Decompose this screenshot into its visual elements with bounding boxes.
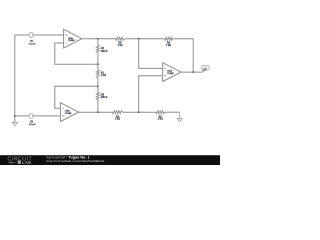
svg-text:1 kΩ: 1 kΩ <box>166 45 171 47</box>
svg-text:1.6 mV: 1.6 mV <box>29 124 36 126</box>
label R7 <box>158 116 163 120</box>
wire V2 right to op-amp OA2 + <box>34 115 61 117</box>
voltage source V2 <box>29 113 34 118</box>
svg-text:http://circuitlab.com/c/ba7hw2: http://circuitlab.com/c/ba7hw2Mbn9 <box>47 159 105 163</box>
wire R7 to right ground <box>165 111 180 113</box>
resistor R3 (vertical, mid column bottom) <box>96 92 99 100</box>
node V2 branch on left rail <box>14 115 16 117</box>
label R5 <box>118 43 123 47</box>
svg-text:1.4 mV: 1.4 mV <box>29 42 36 45</box>
resistor R7 (horizontal, bottom right) <box>156 111 165 114</box>
node tap2 (R1/R3 feedback OA2) <box>97 86 99 88</box>
label OA2 <box>65 110 72 115</box>
wire left rail <box>14 35 16 122</box>
label OA3 <box>167 70 174 75</box>
svg-text:1 kΩ: 1 kΩ <box>115 119 120 121</box>
node R4/R7 junction <box>138 111 140 113</box>
wire op-amp OA2 output <box>79 111 113 113</box>
wire mid column top <box>97 39 99 46</box>
footer logo LAB icon <box>18 161 21 164</box>
footer logo waveform <box>8 161 16 163</box>
resistor R6 (horizontal, top right) <box>165 37 173 40</box>
resistor R2 (vertical, mid column top) <box>96 45 99 53</box>
ground (bottom right) <box>177 112 182 122</box>
resistor R5 (horizontal, top) <box>116 37 125 40</box>
label R2 <box>101 48 107 53</box>
op-amp OA2 <box>60 103 78 122</box>
wire op-amp OA1 output <box>82 38 116 40</box>
node A (OA1 output / R2 top) <box>97 38 99 40</box>
voltage source V1 <box>29 33 34 38</box>
node OA3 output / feedback junction <box>192 71 194 73</box>
wire op-amp OA1 feedback <box>55 43 98 64</box>
wire op-amp OA3 output <box>181 71 203 73</box>
svg-text:TL082: TL082 <box>65 113 72 115</box>
label R4 <box>115 115 120 120</box>
resistor R1 (vertical, mid column middle) <box>96 70 99 78</box>
svg-text:1 kΩ: 1 kΩ <box>158 119 163 121</box>
wire mid column R1-R3 <box>97 78 99 92</box>
resistor R4 (horizontal, bottom) <box>112 111 122 114</box>
ground (left rail) <box>12 122 17 125</box>
wire V2 left branch <box>15 115 29 117</box>
label R1 <box>101 72 106 77</box>
wire bottom node up to OA3 + input <box>139 76 163 112</box>
svg-text:100 Ω: 100 Ω <box>101 97 107 99</box>
node B (R5/R6 junction) <box>138 38 140 40</box>
wire R6 to right corner <box>172 38 193 40</box>
node OA2 output / R3 bottom <box>97 111 99 113</box>
svg-text:100 Ω: 100 Ω <box>101 51 107 53</box>
svg-text:1 kΩ: 1 kΩ <box>118 45 123 47</box>
label V2 <box>29 122 36 127</box>
op-amp OA3 <box>163 63 181 82</box>
wire node B down to OA3 - input <box>139 39 163 69</box>
footer bar <box>0 155 220 165</box>
label OA1 <box>68 37 75 42</box>
svg-text:TL082: TL082 <box>68 40 75 42</box>
wire mid column bottom <box>97 100 99 112</box>
wire right corner down <box>192 39 194 72</box>
svg-text:out: out <box>203 66 207 70</box>
label R6 <box>166 43 171 47</box>
node name flag "out" <box>202 65 210 71</box>
wire op-amp OA2 feedback <box>55 86 98 108</box>
wire V1 right to op-amp OA1 + <box>34 34 64 36</box>
wire bottom rail R4 to R7 <box>123 111 156 113</box>
wire node B to R6 <box>125 38 165 40</box>
svg-text:1 kΩ: 1 kΩ <box>101 75 106 77</box>
label V1 <box>29 41 36 46</box>
wire mid column R2-R1 <box>97 53 99 70</box>
wire V1 left <box>15 34 29 36</box>
node tap1 (R2/R1 feedback OA1) <box>97 63 99 65</box>
op-amp OA1 <box>64 29 82 48</box>
label R3 <box>101 94 107 99</box>
svg-text:LAB: LAB <box>22 160 32 165</box>
svg-text:TL082: TL082 <box>167 73 174 75</box>
